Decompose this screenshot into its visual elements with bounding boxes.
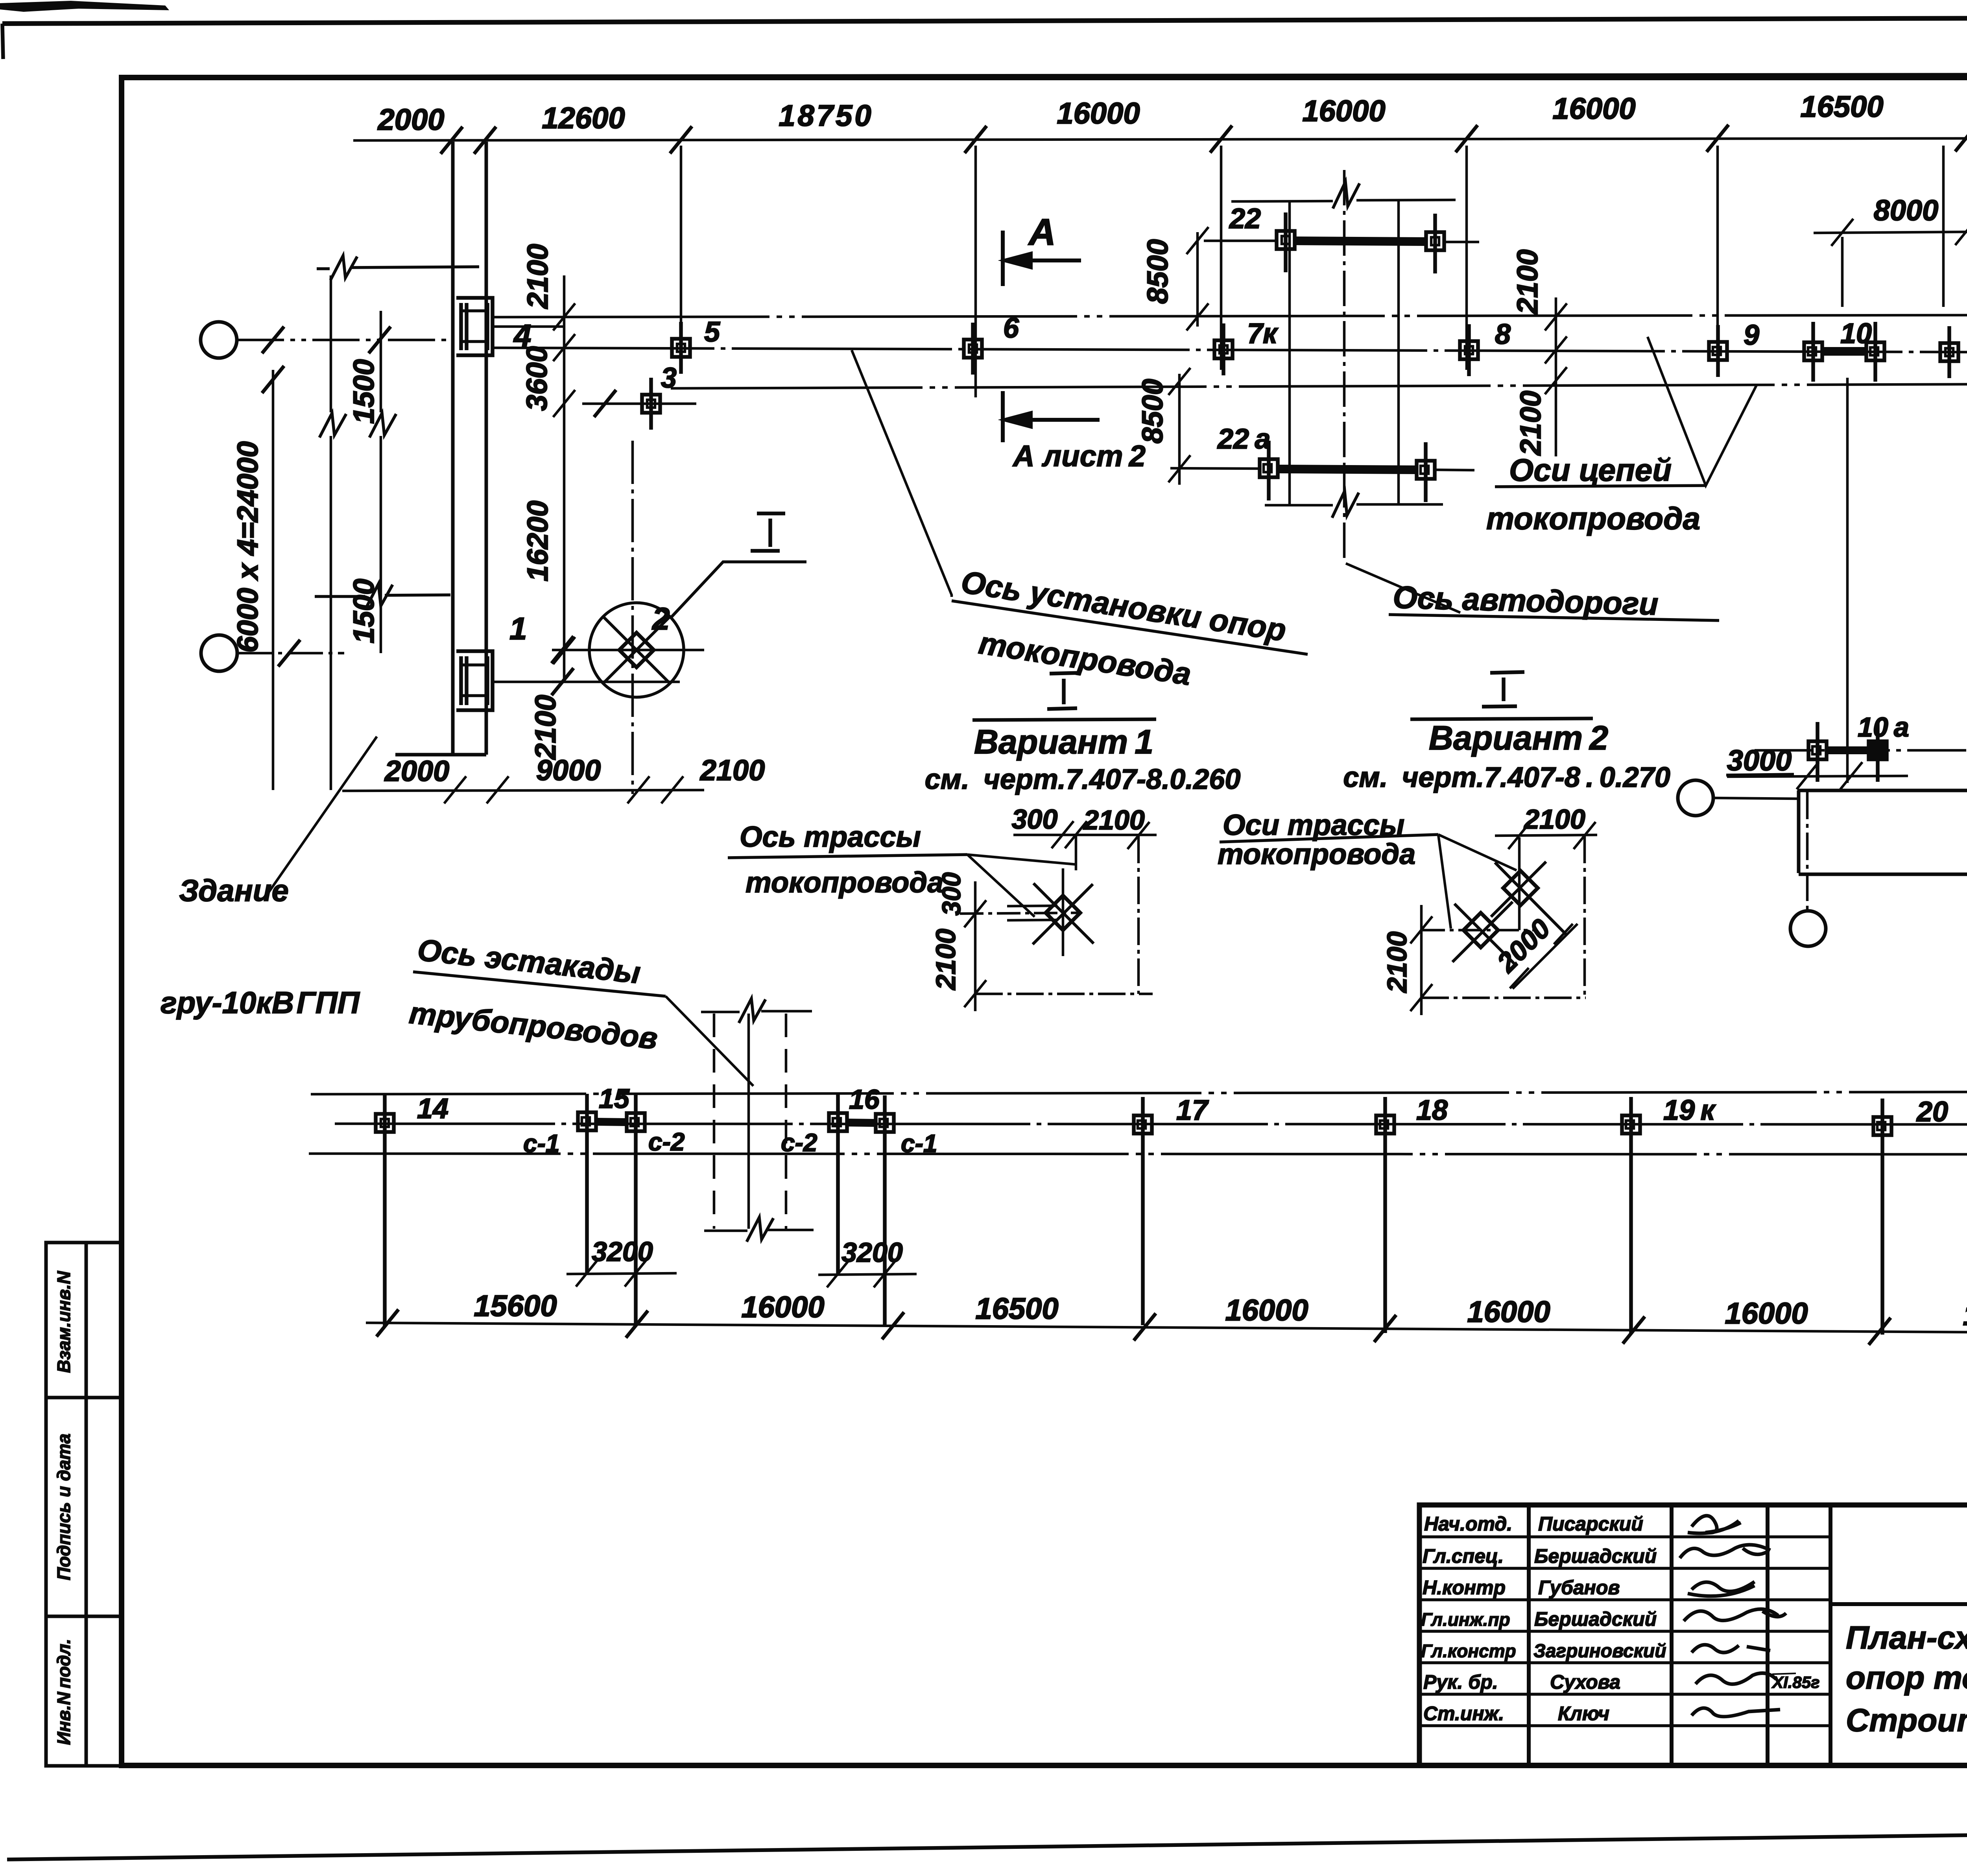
- svg-text:токопровода: токопровода: [1486, 501, 1700, 536]
- support 22 pair: [1277, 212, 1444, 273]
- vertical dim line 2100-3600-16200: [553, 275, 575, 682]
- estakada bottom cap: [704, 1217, 814, 1242]
- zdanie GRU leader: [268, 737, 377, 894]
- svg-text:2100: 2100: [1083, 805, 1145, 835]
- building GRU left wall: [451, 142, 455, 755]
- title block doc number divider: [1830, 1602, 1967, 1606]
- svg-text:16000: 16000: [1057, 97, 1140, 130]
- top chain labels: [377, 85, 1967, 137]
- svg-text:2100: 2100: [699, 754, 765, 787]
- bottom axis upper line: [311, 1092, 1967, 1094]
- building GRU right wall: [485, 142, 488, 755]
- detail circle I: [589, 603, 684, 697]
- bottom axis support line: [335, 1124, 1967, 1124]
- os trassy v2 underline: [1220, 835, 1438, 842]
- v1 short axis pair: [1007, 906, 1057, 920]
- os trassy v2 text: [1218, 809, 1415, 870]
- svg-text:Гл.инж.пр: Гл.инж.пр: [1421, 1609, 1510, 1630]
- support 15 pair: [578, 1094, 645, 1325]
- road top cap: [1231, 200, 1456, 201]
- road edge right: [1397, 201, 1400, 506]
- axis B dash-dot line: [237, 652, 344, 655]
- variant1 I mark: [1047, 673, 1081, 709]
- svg-text:15: 15: [599, 1083, 630, 1114]
- RP building bottom edge: [1799, 862, 1967, 886]
- svg-text:Бершадский: Бершадский: [1534, 1545, 1657, 1567]
- svg-text:3: 3: [661, 362, 677, 394]
- v2 top dim: [1495, 822, 1597, 849]
- building GRU top break line: [317, 256, 479, 280]
- grid extension verticals: [681, 146, 1967, 397]
- support 20: [1873, 1099, 1891, 1335]
- support 4 bracket: [456, 298, 493, 355]
- svg-text:16000: 16000: [1302, 94, 1385, 128]
- axis bubble A: [201, 322, 237, 358]
- svg-text:20: 20: [1916, 1096, 1948, 1128]
- svg-text:см. черт.7.407-8.0.260: см. черт.7.407-8.0.260: [925, 764, 1241, 795]
- svg-text:2000: 2000: [377, 103, 444, 137]
- title block row lines: [1419, 1537, 1830, 1726]
- svg-text:8: 8: [1495, 319, 1511, 350]
- svg-text:9: 9: [1744, 319, 1759, 351]
- os ustanovki opor underline: [952, 601, 1308, 654]
- svg-text:3200: 3200: [592, 1236, 653, 1267]
- estakada top cap: [701, 999, 812, 1023]
- RP axis vertical dashdot: [1806, 792, 1809, 911]
- building GRU bottom cap: [395, 753, 486, 757]
- svg-text:План-схема размещения: План-схема размещения: [1846, 1620, 1967, 1656]
- os trassy v1 text: [740, 820, 943, 899]
- variant2 caption: [1343, 719, 1670, 793]
- v2 vertical axis: [1518, 837, 1521, 930]
- road center line: [1343, 170, 1346, 562]
- support 10a-12a axis line: [1755, 749, 1967, 752]
- dim 8500 lower: [1168, 368, 1190, 485]
- road bottom cap: [1265, 504, 1443, 505]
- svg-text:3600: 3600: [520, 346, 553, 411]
- detail horizontal line upper: [552, 649, 704, 652]
- svg-text:с-2: с-2: [781, 1128, 817, 1157]
- svg-text:с-1: с-1: [901, 1129, 937, 1158]
- svg-text:16500: 16500: [1963, 1298, 1967, 1332]
- svg-text:А лист 2: А лист 2: [1012, 439, 1146, 473]
- svg-text:с-1: с-1: [523, 1129, 560, 1158]
- os avtodorogi underline: [1389, 615, 1719, 620]
- svg-text:2100: 2100: [930, 929, 961, 991]
- support 11k: [1940, 326, 1958, 378]
- left vertical 1500 line: [369, 311, 396, 653]
- axis A dash-dot line: [237, 339, 452, 342]
- os estakady text: [408, 932, 659, 1056]
- svg-text:см. черт.7.407-8 . 0.270: см. черт.7.407-8 . 0.270: [1343, 762, 1670, 793]
- upper circuit line: [494, 314, 1967, 317]
- 3000 underline: [1726, 774, 1794, 775]
- dim 8500 upper: [1186, 227, 1209, 331]
- svg-text:гру-10кВ ГПП: гру-10кВ ГПП: [161, 985, 360, 1020]
- variant2 division bar: [1410, 718, 1593, 719]
- svg-text:Строительное задание.: Строительное задание.: [1846, 1702, 1967, 1738]
- svg-text:2100: 2100: [529, 695, 562, 761]
- detail ticks: [552, 636, 574, 663]
- section mark A upper: [1003, 231, 1081, 286]
- osi cepей underline: [1495, 486, 1706, 487]
- svg-text:8000: 8000: [1874, 194, 1939, 227]
- svg-text:22 а: 22 а: [1217, 423, 1271, 455]
- v1 horizontal axis mid: [960, 913, 1080, 914]
- v2 left dim vertical: [1410, 905, 1432, 1015]
- svg-text:2100: 2100: [1511, 249, 1544, 315]
- v2 right axis: [1583, 836, 1586, 998]
- svg-text:16000: 16000: [741, 1291, 824, 1324]
- svg-text:Ключ: Ключ: [1558, 1702, 1609, 1725]
- section mark A lower: [1003, 391, 1100, 442]
- RP building left edge: [1797, 790, 1801, 873]
- dim 3200 right: [818, 1260, 917, 1287]
- support 17: [1134, 1097, 1152, 1325]
- dim 3200 left: [566, 1259, 677, 1287]
- os estakady leader: [666, 996, 753, 1086]
- support 14 bottom: [376, 1094, 394, 1326]
- os avtodorogi leader: [1346, 563, 1460, 613]
- svg-text:Гл.спец.: Гл.спец.: [1423, 1545, 1504, 1567]
- svg-text:16000: 16000: [1467, 1295, 1550, 1329]
- svg-text:Губанов: Губанов: [1538, 1577, 1620, 1599]
- road bottom break: [1332, 491, 1359, 518]
- RP bubble left line: [1713, 798, 1799, 799]
- svg-text:Сухова: Сухова: [1550, 1671, 1620, 1693]
- title block verticals: [1529, 1505, 1967, 1765]
- support 22 side stubs: [1204, 241, 1479, 242]
- svg-text:токопровода: токопровода: [1218, 838, 1415, 870]
- svg-text:6000 x 4=24000: 6000 x 4=24000: [231, 441, 264, 652]
- road circuit line: [671, 382, 1967, 388]
- svg-text:16000: 16000: [1225, 1294, 1308, 1327]
- svg-text:Писарский: Писарский: [1538, 1513, 1643, 1535]
- svg-text:Загриновский: Загриновский: [1533, 1641, 1666, 1662]
- svg-text:18750: 18750: [779, 99, 873, 133]
- support 5: [672, 322, 690, 374]
- svg-text:токопровода: токопровода: [745, 866, 943, 899]
- bottom chain labels: [474, 1289, 1967, 1333]
- svg-text:Н.контр: Н.контр: [1423, 1577, 1506, 1599]
- bottom axis lower line: [309, 1154, 1967, 1154]
- svg-text:1500: 1500: [347, 359, 380, 424]
- svg-text:14: 14: [417, 1093, 448, 1124]
- svg-text:XI.85г: XI.85г: [1771, 1673, 1819, 1691]
- svg-text:5: 5: [704, 316, 720, 348]
- sheet bottom edge line: [7, 1827, 1967, 1859]
- sheet top edge line: [0, 1, 1967, 59]
- support 22a side stubs: [1170, 468, 1474, 470]
- os ustanovki opor leader: [852, 350, 952, 597]
- os ustanovki opor text: [959, 564, 1288, 692]
- svg-text:22: 22: [1229, 203, 1261, 234]
- top chain ticks: [441, 124, 1967, 154]
- svg-text:16000: 16000: [1552, 92, 1635, 126]
- road edge left: [1288, 201, 1291, 506]
- detail diamond 2: [603, 617, 670, 683]
- support 1 bracket: [456, 651, 493, 710]
- svg-text:17: 17: [1176, 1095, 1209, 1126]
- os estakady underline: [413, 972, 666, 996]
- svg-text:1500: 1500: [347, 579, 380, 644]
- RP bubble left: [1678, 780, 1713, 816]
- detail I leader: [671, 562, 806, 618]
- variant1 caption: [925, 723, 1241, 795]
- v1 right axis: [1137, 836, 1140, 994]
- v1 top stub: [1075, 836, 1078, 870]
- svg-text:8500: 8500: [1136, 379, 1169, 444]
- support 10 extension to 10a: [1846, 378, 1849, 783]
- estakada dashed verticals: [714, 1014, 786, 1229]
- svg-text:2100: 2100: [1382, 931, 1412, 993]
- svg-text:1: 1: [509, 611, 527, 646]
- v1 top dim: [1013, 821, 1157, 849]
- support 7k: [1214, 323, 1233, 375]
- v1 diamond: [1033, 883, 1094, 944]
- v1 leaders: [967, 855, 1076, 917]
- support 10 pair: [1804, 322, 1884, 382]
- svg-text:10 а: 10 а: [1858, 712, 1909, 742]
- osi cepей leader V: [1648, 337, 1757, 486]
- v2 diag dim 2000: [1510, 924, 1578, 989]
- v2 bottom axis: [1421, 997, 1586, 999]
- v2 diamond 1: [1491, 862, 1567, 935]
- svg-text:16500: 16500: [1800, 90, 1883, 124]
- svg-text:2100: 2100: [1514, 391, 1547, 456]
- support 16 pair: [829, 1095, 894, 1326]
- axis A ticks: [262, 327, 284, 353]
- svg-text:300: 300: [937, 872, 966, 916]
- RP bubble lower: [1790, 911, 1826, 946]
- svg-text:Нач.отд.: Нач.отд.: [1424, 1513, 1512, 1535]
- svg-text:Рук. бр.: Рук. бр.: [1423, 1671, 1498, 1693]
- support 10a pair: [1808, 722, 1887, 782]
- svg-text:8500: 8500: [1141, 239, 1174, 304]
- bottom dim chain line: [366, 1323, 1967, 1334]
- title block names: [1533, 1513, 1666, 1725]
- building GRU mid break line: [315, 584, 450, 608]
- svg-text:Оси цепей: Оси цепей: [1509, 452, 1672, 487]
- svg-text:2100: 2100: [521, 244, 554, 310]
- signatures scribbles: [1680, 1516, 1786, 1717]
- svg-text:Ст.инж.: Ст.инж.: [1423, 1702, 1504, 1725]
- svg-text:Вариант 1: Вариант 1: [974, 723, 1153, 761]
- labels 2000 9000 2100: [384, 754, 765, 787]
- road center break top: [1333, 182, 1360, 209]
- support 8: [1460, 324, 1478, 376]
- v1 vertical through diamond: [1062, 868, 1065, 956]
- support 3: [582, 362, 696, 430]
- support 6: [964, 323, 982, 375]
- svg-text:7к: 7к: [1247, 318, 1279, 349]
- v2 horizontal axis: [1421, 929, 1536, 932]
- bottom-left dim chain: [342, 776, 704, 803]
- svg-text:3000: 3000: [1727, 744, 1792, 777]
- v2 diamond 2: [1452, 902, 1515, 964]
- svg-text:16000: 16000: [1725, 1297, 1808, 1330]
- dim 2100 pair right of road: [1545, 297, 1567, 456]
- svg-text:300: 300: [1012, 804, 1058, 835]
- svg-text:19 к: 19 к: [1663, 1095, 1716, 1126]
- support 22a pair: [1260, 441, 1435, 502]
- svg-text:6: 6: [1003, 312, 1019, 344]
- support 18: [1376, 1097, 1394, 1333]
- variant2 I mark: [1482, 672, 1524, 707]
- svg-text:2000: 2000: [384, 755, 450, 787]
- svg-text:Бершадский: Бершадский: [1534, 1608, 1657, 1630]
- support 1 axis stub: [493, 681, 564, 683]
- svg-text:Ось трассы: Ось трассы: [740, 820, 921, 853]
- project name text: [1846, 1620, 1967, 1765]
- title block outer: [1419, 1505, 1967, 1765]
- left dim vertical 6000x4: [272, 370, 275, 790]
- svg-text:9000: 9000: [536, 754, 601, 787]
- left break vertical: [319, 275, 346, 790]
- top dimension chain line: [353, 138, 1967, 140]
- svg-text:18: 18: [1416, 1095, 1448, 1126]
- osi cepей text: [1486, 452, 1700, 536]
- svg-text:2100: 2100: [1523, 804, 1585, 835]
- svg-text:с-2: с-2: [648, 1128, 685, 1156]
- left attribute strip: [46, 1243, 121, 1766]
- zdanie GRU text: [161, 873, 360, 1020]
- svg-text:Взам.инв.N: Взам.инв.N: [54, 1271, 74, 1373]
- axis B tick: [278, 640, 300, 667]
- svg-text:15600: 15600: [474, 1289, 557, 1323]
- svg-text:16500: 16500: [975, 1292, 1058, 1326]
- variant1 division bar: [972, 719, 1156, 720]
- svg-text:2: 2: [651, 601, 670, 636]
- svg-text:Гл.констр: Гл.констр: [1421, 1641, 1516, 1661]
- detail circle axis vertical: [631, 441, 634, 794]
- os trassy v1 underline: [728, 855, 967, 858]
- support axis line upper: [494, 348, 1967, 354]
- detail I mark: [751, 513, 785, 551]
- svg-text:опор токопроводов.: опор токопроводов.: [1846, 1660, 1967, 1696]
- svg-text:3200: 3200: [841, 1237, 903, 1268]
- dim 3000 line: [1727, 762, 1908, 789]
- svg-text:12600: 12600: [542, 102, 625, 135]
- svg-text:16200: 16200: [521, 500, 554, 582]
- svg-text:16: 16: [849, 1084, 880, 1115]
- bottom chain ticks: [376, 1309, 1967, 1347]
- support 4 axis stub: [493, 325, 564, 328]
- v1 left dim vertical: [964, 881, 986, 1011]
- title block signature labels: [1421, 1513, 1516, 1725]
- svg-text:10: 10: [1840, 318, 1872, 349]
- svg-text:Подпись и дата: Подпись и дата: [54, 1434, 74, 1581]
- axis bubble B: [201, 635, 237, 671]
- RP building top edge: [1797, 789, 1967, 792]
- support 9: [1709, 325, 1727, 377]
- v2 leaders: [1438, 835, 1517, 929]
- v1 bottom axis: [975, 993, 1153, 995]
- svg-text:Здание: Здание: [179, 873, 289, 908]
- svg-text:Инв.N подл.: Инв.N подл.: [54, 1639, 74, 1745]
- support 19k: [1622, 1097, 1640, 1334]
- svg-text:А: А: [1028, 211, 1056, 253]
- dim 8000-4000 line: [1814, 218, 1967, 307]
- svg-text:Вариант 2: Вариант 2: [1429, 719, 1608, 757]
- svg-text:Ось автодороги: Ось автодороги: [1393, 580, 1659, 622]
- detail horizontal line lower: [552, 681, 680, 683]
